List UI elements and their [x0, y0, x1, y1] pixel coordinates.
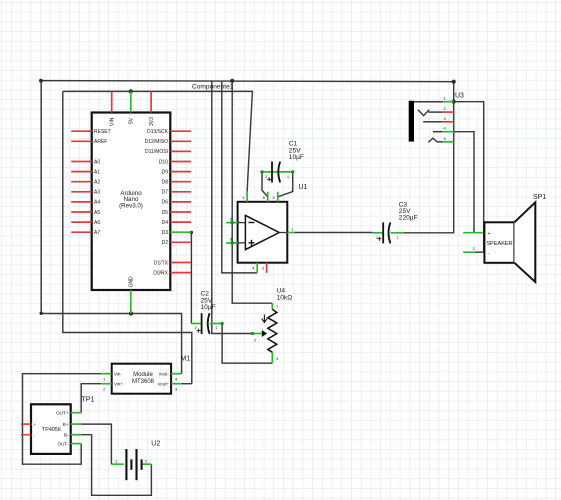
svg-text:D0/RX: D0/RX [153, 270, 168, 276]
wire jack pin1 to speaker minus [454, 102, 484, 253]
svg-text:2: 2 [376, 236, 378, 240]
TP1 pin B- (green) [71, 434, 82, 436]
svg-text:RESET: RESET [94, 129, 111, 135]
C2 left pin (green) [191, 323, 201, 325]
OPAMP U1 [226, 184, 307, 273]
C1 end dots [260, 170, 263, 173]
jack pin 5 line [438, 141, 443, 143]
arduino pin D3 (green wire) [170, 231, 191, 233]
arduino top pins VIN 3V3 (red) [112, 91, 151, 112]
wire jack pin4 to speaker plus [454, 132, 474, 233]
op-amp pin numbers [230, 195, 295, 271]
arduino top pin 5V (green) [130, 91, 132, 112]
svg-text:D3: D3 [162, 230, 169, 236]
speaker minus pin (green) [463, 251, 475, 253]
node gnd bottom junction [129, 311, 133, 315]
op-amp input leads inside [238, 223, 288, 243]
jack pin 5 switch [428, 138, 437, 142]
svg-text:D5: D5 [162, 210, 169, 216]
pot wiper (green) [253, 333, 262, 335]
C1 wire (green) [262, 171, 293, 173]
svg-text:D1/TX: D1/TX [154, 260, 169, 266]
MODULE TP1 TP4056 [21, 397, 94, 454]
wire d3 drop to C2 [190, 232, 192, 323]
C3 left pin (green) [372, 232, 382, 234]
wire 5v rail [63, 91, 253, 191]
jack pin 3 (red) [443, 121, 454, 123]
battery pin numbers [115, 458, 148, 463]
svg-text:VIN: VIN [109, 117, 115, 126]
battery plate tall 1 [125, 449, 127, 480]
svg-text:5V: 5V [129, 117, 135, 124]
op-amp minus glyph [249, 222, 255, 224]
svg-text:TP4056: TP4056 [42, 427, 61, 433]
wire wiper drop [212, 81, 253, 334]
wire gnd rail top [41, 81, 454, 82]
svg-text:U1: U1 [299, 184, 308, 191]
pot wiper arrow [262, 330, 267, 337]
C2 plate curved [208, 313, 210, 334]
speaker body [484, 222, 514, 262]
pot pin numbers [254, 304, 279, 362]
svg-text:A6: A6 [94, 220, 100, 226]
svg-text:+: + [488, 231, 491, 237]
MODULE M1 MT3608 [101, 355, 190, 393]
svg-text:OUT-: OUT- [58, 442, 69, 447]
C1 plate straight [271, 162, 273, 183]
jack pin 4 (green) [443, 131, 454, 133]
arduino right pin labels [145, 129, 169, 276]
pot bottom pin (green) [271, 352, 273, 363]
speaker pin numbers [473, 227, 476, 252]
wire 5v left drop [63, 91, 192, 383]
WIRES-DARK [23, 81, 484, 496]
wire C3 right to jack [404, 82, 454, 233]
svg-text:D12/MISO: D12/MISO [145, 139, 168, 145]
svg-text:U4: U4 [277, 287, 286, 294]
svg-text:SP1: SP1 [533, 194, 546, 201]
wire opamp inputs drop [232, 81, 272, 304]
TP1 left pin 2 (red) [21, 434, 31, 436]
wire C1 right lead [278, 173, 293, 197]
M1 pin vin+ (green) [101, 383, 112, 385]
node gnd rail left end [39, 79, 43, 83]
svg-text:A4: A4 [94, 200, 100, 206]
svg-text:220µF: 220µF [399, 215, 418, 222]
op-amp input junction dots [230, 221, 234, 225]
svg-text:D11/MOSI: D11/MOSI [145, 149, 168, 155]
svg-text:A1: A1 [94, 169, 100, 175]
CAPACITOR C1 [260, 141, 304, 183]
svg-text:D9: D9 [162, 169, 169, 175]
jack pin 5 (green) [443, 141, 454, 143]
op-amp pin +in (green) [226, 242, 237, 244]
svg-text:Vin+: Vin+ [114, 381, 123, 386]
svg-text:2: 2 [265, 175, 267, 179]
pot top pin (green) [271, 303, 273, 309]
svg-text:GND: GND [129, 276, 135, 288]
wire M1 vin- to left drop [23, 374, 102, 465]
arduino body [92, 113, 171, 291]
speaker horn [514, 202, 535, 282]
C2 right end dot [220, 322, 223, 325]
svg-text:10µF: 10µF [201, 304, 216, 311]
wire C1 left lead [262, 173, 268, 197]
C3 right pin (green) [390, 232, 403, 234]
JUNCTION-DOTS [39, 79, 456, 316]
svg-text:A3: A3 [94, 190, 100, 196]
svg-text:D10: D10 [159, 159, 168, 165]
op-amp top pin 3 (green) [277, 192, 279, 202]
TP1 pin OUT- (green) [71, 443, 82, 445]
svg-text:A2: A2 [94, 180, 100, 186]
wire b+ to battery [81, 424, 111, 464]
op-amp top pin 1 (green) [246, 192, 248, 202]
C3 plate curved [389, 222, 391, 243]
op-amp output pin (green) [287, 232, 294, 234]
svg-text:M1: M1 [181, 355, 191, 362]
battery minus pin (green) [142, 463, 152, 465]
M1 pin vout- (green) [171, 373, 182, 375]
op-amp top pin 2 (green) [267, 192, 269, 202]
jack pin 1 line [414, 101, 443, 103]
op-amp pin -in (green) [226, 222, 237, 224]
pot adjust arrow [262, 315, 268, 323]
svg-text:Module: Module [133, 372, 153, 378]
svg-text:A5: A5 [94, 210, 100, 216]
op-amp U1 body [238, 202, 288, 263]
POT U4 [251, 287, 292, 363]
wire M1 vin+ to out+ [81, 384, 101, 413]
svg-text:A7: A7 [94, 230, 100, 236]
C3 plate straight [382, 222, 384, 243]
C2 plus sign [197, 329, 201, 333]
svg-text:D6: D6 [162, 200, 169, 206]
svg-text:A0: A0 [94, 159, 100, 165]
node gnd corner left [40, 312, 43, 315]
svg-text:2: 2 [195, 326, 197, 330]
battery plate short 1 [130, 459, 132, 469]
C1 plus sign [267, 177, 271, 181]
C1 plate curved [278, 162, 280, 183]
jack pin 2 switch [418, 110, 429, 116]
ARDUINO U-NANO [71, 91, 191, 313]
C3 pin numbers [376, 236, 399, 240]
wire c2 right to pot bottom [222, 324, 272, 364]
svg-text:MT3608: MT3608 [132, 379, 155, 385]
battery plus pin (green) [111, 463, 123, 465]
C2 plate straight [201, 313, 203, 334]
svg-text:1: 1 [287, 175, 289, 179]
wire vout+ stub link [182, 383, 192, 385]
svg-text:10µF: 10µF [289, 154, 304, 161]
svg-text:Vout-: Vout- [159, 371, 170, 376]
wire gnd left drop [41, 81, 181, 374]
op-amp bottom pin (red unconnected) [266, 263, 268, 273]
svg-text:B-: B- [64, 433, 69, 438]
svg-text:B+: B+ [63, 422, 69, 427]
arduino right pins (red) [170, 131, 191, 272]
C2 pin numbers [195, 326, 218, 330]
arduino left pins (red) [71, 131, 92, 232]
M1 pin vout+ (green) [171, 383, 181, 385]
svg-text:OUT+: OUT+ [56, 411, 69, 416]
svg-text:Vout+: Vout+ [157, 381, 169, 386]
pot wiper dot [251, 332, 254, 335]
svg-text:D2: D2 [162, 240, 169, 246]
svg-text:Componente1: Componente1 [192, 84, 234, 91]
jack pin 3 line [423, 121, 443, 123]
svg-text:AREF: AREF [94, 139, 107, 145]
svg-text:10kΩ: 10kΩ [277, 294, 293, 301]
svg-text:+: + [34, 422, 37, 427]
svg-text:D13/SCK: D13/SCK [147, 129, 169, 135]
svg-text:SPEAKER: SPEAKER [486, 241, 512, 247]
svg-text:3V3: 3V3 [149, 117, 155, 126]
op-amp bottom pin (green) [256, 263, 258, 273]
svg-text:U2: U2 [151, 441, 160, 448]
svg-text:TP1: TP1 [82, 397, 95, 404]
TP1 pin B+ (green) [71, 423, 82, 425]
arduino top pin labels rotated [109, 117, 154, 126]
speaker plus pin (green) [463, 232, 484, 234]
node gnd rail mid [230, 79, 234, 83]
battery plate tall 2 [135, 449, 137, 480]
battery plate short 2 [141, 459, 143, 469]
node gnd rail right end [452, 80, 456, 84]
wire b- to battery minus [81, 435, 151, 496]
C1 pin numbers [265, 175, 289, 179]
svg-text:D8: D8 [162, 180, 169, 186]
svg-text:1: 1 [216, 326, 218, 330]
C3 plus sign [377, 237, 381, 241]
svg-text:D7: D7 [162, 190, 169, 196]
wire opamp out to C3 [295, 232, 373, 234]
M1 pin numbers [103, 377, 178, 392]
node jack pin1 junction [452, 100, 456, 104]
jack pin 2 (red) [443, 111, 454, 113]
TP1 body [31, 404, 71, 454]
M1 body [112, 364, 171, 394]
jack sleeve bar [409, 101, 414, 142]
BATTERY U2 [111, 441, 160, 481]
CAPACITOR C2 [191, 291, 223, 334]
arduino left pin labels [94, 129, 111, 236]
jack pin 2 line [428, 111, 443, 113]
jack pin numbers [444, 96, 447, 141]
node d3 corner [190, 231, 193, 234]
svg-text:D4: D4 [162, 220, 169, 226]
svg-text:U3: U3 [455, 92, 464, 99]
CAPACITOR C3 [372, 201, 417, 243]
JACK U3 [409, 92, 464, 142]
svg-text:Vin-: Vin- [114, 371, 122, 376]
node 5v pin junction [129, 89, 133, 93]
op-amp triangle [245, 215, 279, 249]
pot zigzag [268, 309, 277, 352]
TP1 pin OUT+ (green) [71, 412, 82, 414]
TP1 left pin (red) [21, 423, 31, 425]
SPEAKER SP1 [463, 194, 546, 282]
M1 pin vin- (green) [101, 373, 112, 375]
svg-text:1: 1 [397, 236, 399, 240]
jack pin 4 line [433, 131, 443, 133]
op-amp plus glyph [249, 240, 255, 246]
arduino bottom pin GND (green) [130, 290, 132, 314]
jack pin 1 (green) [443, 101, 454, 103]
svg-text:(Rev3.0): (Rev3.0) [119, 202, 143, 209]
C2 right pin (green) [210, 323, 222, 325]
wire opamp pin4 drop [222, 81, 257, 273]
